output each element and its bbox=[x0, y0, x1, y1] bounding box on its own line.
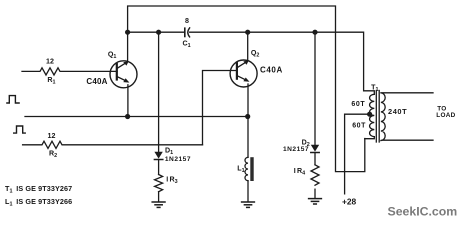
wire secondary top lead bbox=[382, 92, 433, 94]
junction dot Q1 emitter on common line bbox=[125, 114, 130, 119]
svg-text:L1 IS GE 9T33Y266: L1 IS GE 9T33Y266 bbox=[5, 197, 72, 208]
svg-text:1N2157: 1N2157 bbox=[283, 146, 309, 153]
junction dot Q2 emitter on common line bbox=[245, 114, 250, 119]
svg-text:LOAD: LOAD bbox=[436, 112, 455, 119]
pulse input 1 bbox=[7, 96, 19, 103]
svg-text:8: 8 bbox=[185, 17, 189, 25]
resistor R3 bbox=[155, 175, 163, 192]
wire primary bottom elbow bbox=[365, 137, 375, 139]
wire center tap to +28 bbox=[345, 114, 370, 194]
svg-text:SeekIC.com: SeekIC.com bbox=[388, 205, 458, 219]
svg-text:+28: +28 bbox=[342, 197, 357, 207]
diode D1 bbox=[154, 152, 162, 160]
wire L1 to ground bbox=[247, 181, 249, 202]
svg-text:IR3: IR3 bbox=[166, 175, 177, 185]
wire emitter common line bbox=[25, 116, 248, 118]
transformer T1 secondary winding bbox=[381, 93, 385, 141]
wire R4 to ground bbox=[314, 189, 316, 198]
svg-text:C40A: C40A bbox=[86, 77, 107, 86]
capacitor C1 bbox=[185, 28, 190, 37]
svg-text:IR4: IR4 bbox=[294, 167, 305, 177]
svg-text:240T: 240T bbox=[388, 107, 407, 116]
wire Q2 emitter down to L1 bbox=[247, 84, 249, 157]
svg-text:12: 12 bbox=[46, 57, 54, 65]
wire Q1 collector bbox=[127, 32, 129, 61]
resistor R1 with base wire to Q1 bbox=[22, 68, 117, 75]
wire top rail: Q1 collector node up and over to primary bottom bbox=[128, 6, 365, 172]
svg-text:C1: C1 bbox=[183, 40, 191, 50]
wire Q2 collector bbox=[247, 32, 249, 60]
ground (R3) bbox=[152, 202, 165, 207]
junction dot D2 branch on rail bbox=[312, 30, 317, 35]
svg-text:D1: D1 bbox=[165, 147, 173, 157]
transformer T1 primary winding bbox=[370, 94, 375, 136]
wire D1 branch from rail bbox=[158, 32, 160, 151]
inductor L1 bbox=[245, 157, 254, 181]
svg-text:12: 12 bbox=[48, 132, 56, 140]
wire D2 to R4 bbox=[314, 153, 316, 165]
svg-text:L1: L1 bbox=[237, 165, 244, 175]
resistor R4 bbox=[311, 165, 319, 185]
svg-text:Q2: Q2 bbox=[251, 49, 260, 59]
junction dot transformer center tap bbox=[367, 112, 372, 117]
svg-text:60T: 60T bbox=[351, 101, 365, 108]
junction dot Q1 collector on rail bbox=[125, 30, 130, 35]
svg-text:1N2157: 1N2157 bbox=[165, 156, 191, 163]
svg-text:60T: 60T bbox=[352, 123, 366, 130]
transistor Q1 bbox=[110, 61, 137, 88]
wire collector rail left segment (Q1 node to C1 left plate) bbox=[128, 31, 184, 33]
svg-text:Q1: Q1 bbox=[108, 50, 117, 60]
junction dot Q2 collector on rail bbox=[245, 30, 250, 35]
ground (R4) bbox=[309, 199, 322, 204]
junction dot D1 branch on rail bbox=[156, 30, 161, 35]
svg-text:R2: R2 bbox=[49, 150, 57, 160]
ground (L1) bbox=[242, 202, 255, 207]
wire D1 to R3 bbox=[158, 160, 160, 174]
pulse input 2 bbox=[14, 126, 26, 133]
wire secondary bottom lead bbox=[382, 139, 433, 141]
wire Q1 emitter bbox=[127, 85, 129, 117]
svg-text:T1: T1 bbox=[371, 84, 378, 94]
svg-text:C40A: C40A bbox=[260, 66, 283, 75]
diode D2 bbox=[311, 145, 319, 153]
wire collector rail right segment (C1 right plate to primary top) bbox=[190, 32, 375, 94]
resistor R2 with wire bbox=[23, 141, 203, 148]
wire D2 branch from rail bbox=[314, 32, 316, 144]
transformer T1 core bbox=[376, 91, 379, 143]
wire R3 to ground bbox=[158, 192, 160, 202]
wire R2 up to Q2 base bbox=[203, 71, 238, 145]
svg-text:R1: R1 bbox=[47, 76, 55, 86]
transistor Q2 bbox=[230, 60, 257, 87]
svg-text:T1 IS GE 9T33Y267: T1 IS GE 9T33Y267 bbox=[5, 184, 72, 195]
